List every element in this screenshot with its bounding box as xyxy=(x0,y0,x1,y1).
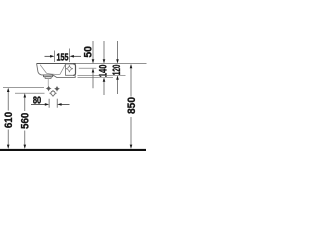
dim 155 left ext line xyxy=(54,51,56,63)
dim 155 right ext line xyxy=(69,49,71,63)
dim 50 lower shaft xyxy=(92,72,94,89)
dim 560 shaft upper xyxy=(24,97,26,111)
tap hole star xyxy=(66,65,73,72)
svg-text:610: 610 xyxy=(3,112,15,128)
basin inner front slope xyxy=(40,65,47,74)
supply level line 610 xyxy=(3,87,44,89)
svg-text:80: 80 xyxy=(33,95,41,107)
tap box bold right edge xyxy=(73,64,75,76)
dim 155 right arrow xyxy=(73,55,81,57)
dim 80 right ext line xyxy=(56,99,58,108)
dim 120 lower shaft xyxy=(117,79,119,94)
dim 80 right arrow xyxy=(61,103,70,105)
basin bowl floor xyxy=(47,73,60,74)
basin back slope xyxy=(60,65,65,75)
label 140 xyxy=(99,64,107,77)
floor line xyxy=(0,149,146,151)
dim 80 leader and left arrow xyxy=(31,103,46,105)
svg-text:120: 120 xyxy=(111,65,123,76)
dim 850 shaft lower xyxy=(130,117,132,146)
dim 560 shaft lower xyxy=(24,131,26,146)
drain box xyxy=(44,75,53,77)
basin outline xyxy=(37,64,76,78)
supply star right xyxy=(54,86,60,92)
dim 850 shaft upper xyxy=(130,68,132,97)
dim 120 upper shaft xyxy=(117,41,119,60)
dim 140 upper shaft xyxy=(103,41,105,60)
dim 610 shaft upper xyxy=(7,91,9,110)
svg-text:850: 850 xyxy=(126,97,138,114)
dim 50 upper shaft xyxy=(92,41,94,60)
svg-text:155: 155 xyxy=(57,51,69,63)
dim 120 bottom ext line xyxy=(78,74,126,76)
tap box xyxy=(66,64,74,76)
dim 155 left arrow xyxy=(45,55,52,57)
deck extension line xyxy=(37,63,147,65)
drain centerline xyxy=(47,79,49,86)
dim 610 shaft lower xyxy=(7,130,9,146)
dim 50 bottom ext line xyxy=(79,67,97,69)
drain circle symbol xyxy=(51,91,55,95)
dim 140 lower shaft xyxy=(103,81,105,95)
label 120 xyxy=(112,64,120,75)
svg-text:50: 50 xyxy=(83,46,95,58)
dim 80 left ext line xyxy=(48,99,50,108)
dim 140 bottom ext line xyxy=(78,76,114,78)
drain level line 560 xyxy=(15,92,45,94)
supply star left xyxy=(46,86,52,92)
svg-text:560: 560 xyxy=(20,113,32,129)
basin rim top xyxy=(37,63,76,65)
